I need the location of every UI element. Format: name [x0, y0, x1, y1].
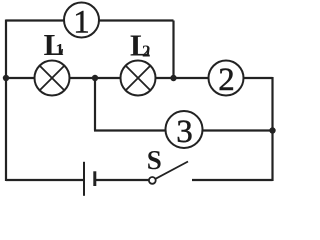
wire vertical drop from top wire to lamp row — [172, 21, 174, 79]
svg-text:S: S — [147, 145, 162, 175]
node junction between L1 and L2 — [92, 75, 98, 81]
node junction right of L2 — [170, 75, 176, 81]
wire lamp row: left edge to L1 — [6, 77, 35, 79]
wire meter-3 branch right horizontal — [202, 129, 273, 131]
svg-text:1: 1 — [56, 40, 65, 59]
ammeter 1 — [64, 3, 99, 41]
wire top-right segment — [99, 19, 174, 21]
wire left side vertical — [5, 20, 7, 182]
wire bottom-right segment — [192, 179, 273, 181]
wire switch to battery — [96, 179, 149, 181]
node left junction — [3, 75, 9, 81]
label L1 — [44, 27, 65, 62]
wire battery to bottom-left corner — [6, 179, 83, 181]
switch S — [149, 162, 188, 184]
ammeter 2 — [209, 61, 244, 99]
wire lamp row: L2 to meter 2 — [156, 77, 209, 79]
wire top-left segment — [6, 19, 64, 21]
label L2 — [130, 28, 151, 63]
wire lamp row: meter 2 to right edge — [244, 77, 273, 79]
battery — [84, 162, 95, 196]
wire meter-3 branch left horizontal — [94, 129, 166, 131]
lamp L2 — [121, 61, 156, 96]
wire right side vertical — [271, 77, 273, 181]
svg-text:1: 1 — [73, 5, 90, 41]
svg-text:2: 2 — [142, 41, 151, 60]
svg-text:3: 3 — [176, 114, 193, 150]
node junction right wire / meter-3 branch — [269, 127, 275, 133]
label S — [147, 145, 162, 175]
wire meter-3 branch vertical — [94, 78, 96, 131]
svg-text:2: 2 — [218, 62, 235, 98]
ammeter 3 — [166, 111, 203, 150]
wire lamp row: L1 to L2 — [70, 77, 121, 79]
lamp L1 — [35, 61, 70, 96]
